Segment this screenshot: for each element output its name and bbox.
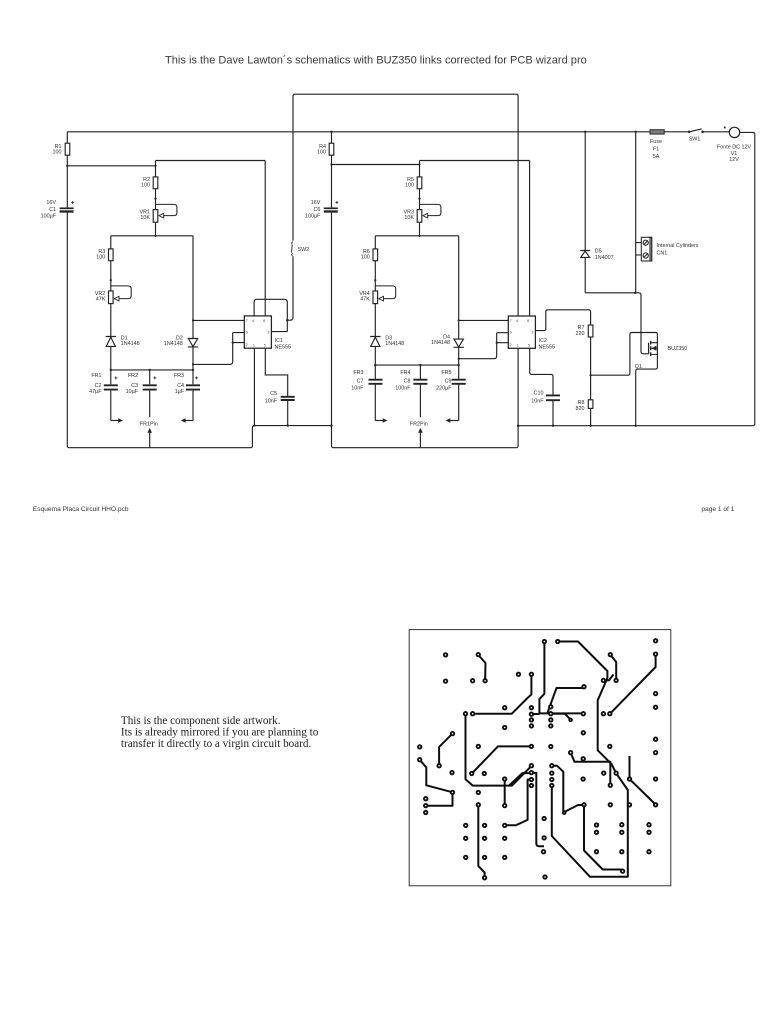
wire: IC1 pin5 to C5 [265,348,287,425]
svg-text:10nF: 10nF [351,385,364,391]
svg-text:FR1Pin: FR1Pin [140,422,158,428]
svg-text:C9: C9 [445,378,452,384]
trace [539,642,583,714]
svg-text:100: 100 [96,254,105,260]
svg-text:FR5: FR5 [441,370,451,376]
svg-text:8: 8 [527,318,529,323]
svg-text:7: 7 [246,318,248,323]
svg-text:C2: C2 [95,383,102,389]
svg-text:F1: F1 [653,147,659,153]
junction node 419.5,198.6 [418,198,420,200]
fuse F1 [650,130,664,134]
trace [504,779,506,806]
svg-text:100nF: 100nF [395,385,411,391]
svg-text:3: 3 [531,330,533,335]
junction dots [66,131,637,427]
resistor R5 [417,177,422,189]
junction node 193,369.9 [192,369,194,371]
wire: R6/VR4/D3 column [374,236,376,365]
svg-text:10K: 10K [140,215,150,221]
trace [565,805,584,812]
svg-text:100: 100 [141,182,150,188]
wire: FR row left [111,369,193,371]
wire: D4 bottom node to IC2 pins 2,6 [459,333,509,359]
wire: R7 bottom to gate node, R8 [590,337,592,426]
svg-text:IC1: IC1 [275,338,283,344]
capacitor C5 [281,397,295,400]
svg-text:12V: 12V [729,157,739,163]
diode D1 [106,337,116,347]
junction node 458.7,365.1 [458,364,460,366]
svg-text:1N4148: 1N4148 [121,341,140,347]
trace [478,655,485,680]
svg-text:100: 100 [405,182,414,188]
trace [473,674,532,713]
VR2 wiper arrowhead [114,296,119,301]
junction node 635.7,131.8 [635,131,637,133]
resistor R7 [588,325,593,337]
trace [547,688,583,713]
VR2 wiper loop [111,286,131,299]
wire: gate node to MOSFET drain loop [591,333,658,426]
svg-text:Its is already mirrored if you: Its is already mirrored if you are plann… [121,727,319,739]
capacitor C2 [104,385,118,389]
junction node 375.3,280.1 [374,279,376,281]
junction node 149.7,369.9 [149,369,151,371]
capacitor C4 [186,385,200,389]
capacitor stubs [111,370,193,421]
PCB artwork frame [409,630,671,886]
svg-text:8: 8 [263,318,265,323]
wire: R3/VR2/D1 column [110,236,112,370]
polarity plus marks [71,201,74,204]
svg-text:This is the component side art: This is the component side artwork. [121,715,281,727]
svg-text:16V: 16V [46,200,56,206]
wire: R2 top to IC1 pin8 [156,161,266,316]
svg-text:page 1 of 1: page 1 of 1 [701,506,734,513]
wire: ground loop path left box bottom to right rail up to V1 [67,132,755,448]
svg-text:7: 7 [510,318,512,323]
paragraph text [121,715,319,750]
junction node 419.5,235.8 [418,235,420,237]
capacitor C6 [324,207,338,209]
wire: R5/VR3 column [419,161,421,236]
connector CN1 [641,237,651,261]
svg-text:Internal Cylinders: Internal Cylinders [657,243,699,249]
trace [603,675,613,681]
capacitor C1 [60,208,560,400]
junction node 193,320.4 [192,319,194,321]
trace [551,714,571,720]
wire: Vcc node to R2 column [67,165,155,167]
svg-text:Fonte DC 12V: Fonte DC 12V [717,145,752,151]
trace [505,780,532,826]
FR5 arrow wire [450,420,459,422]
FR3r arrow wire [375,420,383,422]
svg-text:100µF: 100µF [305,214,321,220]
wire: IC1 pin4 rounded loop [254,299,287,320]
svg-text:C10: C10 [534,391,544,397]
svg-text:IC2: IC2 [539,338,547,344]
FR2Pin arrow wire [419,431,421,447]
junction node 518.1,425.7 [517,425,519,427]
wire: R2/VR1 column [155,161,157,236]
VR4 wiper loop [375,286,395,299]
svg-text:1: 1 [253,343,255,348]
svg-text:NE555: NE555 [539,344,555,350]
trace [630,756,655,804]
voltage source V1 [729,127,739,137]
svg-text:2: 2 [510,342,512,347]
VR3 wiper loop [420,204,441,215]
junction node 254.4,425.6 [253,424,255,426]
wire: D4 column [458,236,460,365]
svg-text:transfer it directly to a virg: transfer it directly to a virgin circuit… [121,738,312,750]
svg-text:C5: C5 [270,391,277,397]
svg-text:C7: C7 [357,378,364,384]
junction node 420.4,365.1 [419,364,421,366]
capacitor C7 [369,380,383,384]
resistor R4 [329,143,334,155]
svg-text:Q1: Q1 [635,364,642,370]
capacitor C10 [546,395,560,400]
junction node 590.6,425.7 [589,425,591,427]
svg-text:FR1: FR1 [91,373,101,379]
svg-text:SW2: SW2 [298,247,310,253]
svg-text:C6: C6 [313,207,320,213]
svg-text:220µF: 220µF [436,385,452,391]
junction node 110.8,369.9 [110,369,112,371]
junction node 458.7,358.7 [458,358,460,360]
PCB pads [418,639,657,879]
svg-text:16V: 16V [311,200,321,206]
svg-text:5A: 5A [653,154,660,160]
svg-text:5: 5 [528,343,530,348]
wire: VR1 bottom node horizontal [111,235,193,237]
VR4 wiper arrowhead [379,296,384,301]
svg-text:C4: C4 [177,383,184,389]
svg-text:100: 100 [317,149,326,155]
junction node 155.5,235.8 [154,235,156,237]
junction node 590.6,375.2 [590,374,592,376]
svg-text:220: 220 [576,331,585,337]
capacitor C3 [143,385,157,389]
junction node 287.3,320.2 [286,319,288,321]
trace [610,655,616,681]
trace [584,805,623,871]
svg-text:47K: 47K [360,297,370,303]
svg-text:47µF: 47µF [89,389,102,395]
wire: IC2 pin3 to R7 top [535,310,590,331]
junction node 496.7,342.7 [496,342,498,344]
svg-text:5: 5 [264,343,266,348]
resistor R1 [65,143,70,155]
trace [552,774,628,877]
junction node 635.7,425.7 [635,425,637,427]
trace [558,642,616,774]
junction node 193,364.4 [192,363,194,365]
wire: CN1/D5 node to MOSFET gate [635,293,648,354]
wire: VR3 bottom node horizontal [375,235,458,237]
junction node 287.7,425.6 [287,424,289,426]
svg-text:820: 820 [576,406,585,412]
svg-text:1N4148: 1N4148 [385,341,404,347]
junction node 331.5,164.5 [330,163,332,165]
svg-text:FR2Pin: FR2Pin [410,422,428,428]
diode D3 [370,337,380,347]
trace [478,805,484,878]
potentiometer VR3 [417,210,422,223]
wire: R4/C6 column [331,132,333,426]
switch SW2 [292,242,293,257]
junction node 67.3,165.8 [66,165,68,167]
diode D2 [188,339,198,347]
wire: D5 column [585,132,635,293]
op-amp IC2 NE555 box [508,316,535,348]
junction node 635.2,292.8 [634,292,636,294]
trace [466,714,532,786]
switch SW1 [688,131,704,134]
component labels [41,144,585,412]
trace [571,753,611,786]
wire: IC2 pin1 to ground [517,348,519,425]
trace [472,746,532,773]
trace [426,792,453,805]
FR3 arrow wire [184,420,193,422]
wire: IC1 pin3 to SW2 node [271,320,287,331]
svg-text:6: 6 [246,329,248,334]
FR1Pin arrow wire [149,431,151,447]
wire: IC1 pin1 to ground jog [253,348,255,425]
svg-text:FR4: FR4 [400,370,410,376]
wire: IC1 pin7 from D2 column [193,319,244,321]
svg-text:C3: C3 [131,383,138,389]
op-amp IC1 NE555 box [244,316,535,348]
svg-text:NE555: NE555 [275,344,291,350]
junction node 585.2,131.8 [584,131,586,133]
trace [531,713,539,715]
wire: IC2 pin7 from D4 column [459,319,509,321]
resistor R6 [373,249,378,261]
svg-text:FR3: FR3 [353,370,363,376]
svg-text:100: 100 [53,149,62,155]
potentiometer VR4 [373,291,378,304]
wire: CN1 column [636,132,642,293]
wire: big loop SW2 to IC2 pin4 [293,94,518,316]
VR1 wiper arrowhead [159,213,164,218]
junction node 331.5,425.6 [330,424,332,426]
VR1 wiper loop [156,204,177,215]
svg-text:1N4148: 1N4148 [164,341,183,347]
wire: FR row right [375,364,458,366]
svg-text:10nF: 10nF [531,399,544,405]
wire: D2 bottom node to IC1 pins 2,6 [193,333,244,365]
junction node 553,425.7 [552,425,554,427]
diode D5 [580,251,590,258]
svg-text:47K: 47K [96,297,106,303]
svg-text:1µF: 1µF [175,389,185,395]
svg-text:R7: R7 [578,325,585,331]
svg-text:2: 2 [246,342,248,347]
capacitor C9 [452,380,466,384]
trace [439,734,452,766]
wire: R5 top to IC2 pin8 [420,161,530,317]
junction node 331.5,131.8 [330,131,332,133]
svg-text:Esquema Placa Circuit HHO.pcb: Esquema Placa Circuit HHO.pcb [33,506,129,513]
trace [509,773,531,785]
svg-text:FR3: FR3 [174,373,184,379]
junction node 458.7,320.4 [458,319,460,321]
svg-text:1: 1 [517,343,519,348]
wire: D2 column [192,236,194,370]
potentiometer VR1 [153,210,158,223]
diode D4 [454,339,464,347]
trace [420,760,453,793]
transistor Q1 arrow [652,346,657,351]
svg-text:10µF: 10µF [126,389,139,395]
svg-text:BUZ350: BUZ350 [668,346,688,352]
svg-text:CN1: CN1 [657,250,668,256]
trace [611,654,655,712]
wire: top power rail [67,131,729,133]
svg-text:10K: 10K [404,215,414,221]
svg-text:1N4007: 1N4007 [595,255,614,261]
svg-text:SW1: SW1 [689,137,701,143]
transistor Q1 BUZ350 symbol [649,341,658,357]
junction node 155.5,198.6 [154,198,156,200]
svg-text:3: 3 [267,330,269,335]
IC pin numbers [246,318,534,348]
junction node 419.5,164.5 [418,163,420,165]
resistor R8 [588,400,593,409]
svg-text:D5: D5 [595,248,602,254]
trace [531,773,544,846]
wire: IC2 pin5 to C10 [530,348,553,425]
svg-text:FR2: FR2 [128,373,138,379]
svg-text:C8: C8 [404,378,411,384]
resistor R3 [109,249,114,261]
svg-text:Fuse: Fuse [650,139,662,145]
svg-text:C1: C1 [49,207,56,213]
svg-text:1N4148: 1N4148 [431,340,450,346]
cap pin arrowheads [118,418,123,423]
svg-text:100µF: 100µF [41,214,57,220]
svg-text:10nF: 10nF [265,399,278,405]
svg-text:6: 6 [510,330,512,335]
potentiometer VR2 [109,291,114,304]
resistor R2 [153,177,158,189]
junction node 232.7,342.6 [232,342,234,344]
wire: R4 node to R5 column [332,164,420,166]
PCB traces [420,642,656,878]
junction node 155.5,165.8 [154,165,156,167]
FR1 arrow wire [111,420,119,422]
junction node 375.3,365.1 [374,364,376,366]
VR3 wiper arrowhead [423,213,428,218]
capacitor C8 [413,380,427,384]
svg-text:This is the Dave Lawton´s sche: This is the Dave Lawton´s schematics wit… [165,55,587,67]
svg-text:100: 100 [361,254,370,260]
trace [552,766,564,811]
junction node 110.8,280.1 [110,279,112,281]
